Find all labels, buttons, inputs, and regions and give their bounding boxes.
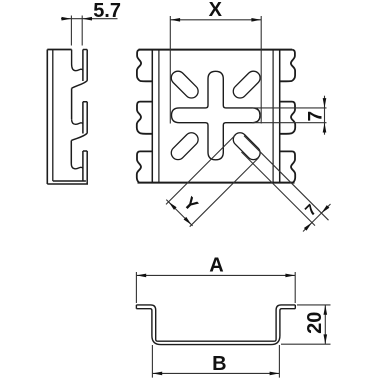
dimension Y diagonal — [166, 135, 258, 227]
side view bottom edge — [47, 181, 88, 184]
dimension X — [170, 16, 261, 124]
dimension B — [152, 345, 279, 378]
dimension 7 right — [252, 96, 327, 135]
side view notch U2 — [72, 119, 83, 124]
dimension 5.7 — [61, 16, 118, 46]
dimension A — [136, 272, 295, 303]
svg-text:A: A — [209, 254, 223, 276]
main view bend lines — [159, 50, 273, 183]
svg-text:5.7: 5.7 — [93, 0, 121, 22]
main view left tab 3 (corner) — [137, 151, 153, 182]
oval SW — [169, 130, 201, 162]
side view tab 1 — [72, 50, 88, 89]
dimension 20 — [281, 305, 331, 344]
side view recess 1 — [71, 88, 73, 119]
oval SE — [231, 130, 263, 162]
svg-text:Y: Y — [180, 193, 203, 216]
svg-text:B: B — [212, 353, 226, 375]
side view tab 2 — [71, 102, 87, 141]
svg-text:X: X — [209, 0, 223, 21]
main view left tab 2 — [137, 102, 153, 134]
side view top edge — [47, 49, 71, 51]
dimension 7 diagonal — [241, 136, 330, 232]
main view bottom edge — [138, 182, 295, 184]
profile outline — [136, 305, 295, 341]
main view top edge — [139, 49, 293, 51]
side view notch U3 — [71, 164, 83, 169]
side view notch U1 — [72, 50, 83, 71]
svg-text:7: 7 — [305, 111, 326, 122]
side view left verticals — [46, 50, 48, 185]
main view right tab 2 — [280, 102, 296, 134]
oval NW — [169, 68, 201, 100]
svg-text:20: 20 — [304, 312, 326, 334]
side view recess 2 — [70, 141, 72, 164]
side view tab 3 — [83, 151, 87, 184]
oval NE — [231, 68, 263, 100]
main view left tab 1 (corner) — [137, 50, 152, 82]
main view right tab 1 (corner) — [280, 50, 295, 82]
main view right tab 3 (corner) — [280, 151, 296, 182]
cross hole — [172, 71, 261, 160]
